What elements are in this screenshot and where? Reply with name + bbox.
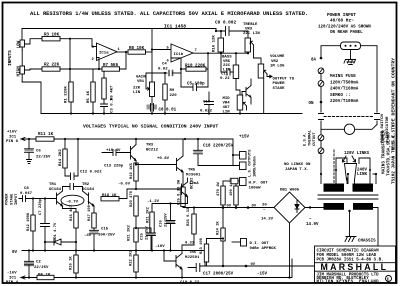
svg-text:R9: R9 [170,89,175,93]
svg-text:-0.7V: -0.7V [66,200,79,204]
svg-text:POWER INPUT: POWER INPUT [327,13,356,18]
svg-text:100mW: 100mW [249,186,262,190]
op-amp IC1a [97,43,118,61]
svg-text:R1 220K: R1 220K [65,86,69,103]
wire HP common down [247,186,249,267]
svg-text:240V/T160mA: 240V/T160mA [330,87,359,92]
svg-text:C8: C8 [24,187,29,191]
svg-text:22C LIN: 22C LIN [243,32,260,36]
svg-text:IC1: IC1 [9,276,17,280]
svg-text:-10V: -10V [155,245,165,249]
svg-text:ON: ON [309,102,315,106]
svg-text:PIN 8: PIN 8 [6,140,19,144]
svg-text:4K7: 4K7 [223,106,231,110]
svg-text:CUTOUT: CUTOUT [313,132,317,146]
svg-text:TR5: TR5 [188,169,196,173]
svg-text:22/25V: 22/25V [36,155,51,160]
wire top bus [22,28,216,30]
jack LS2 [240,162,247,170]
svg-text:C5 100p: C5 100p [187,82,205,86]
svg-text:C13 220p: C13 220p [104,165,124,169]
wire 0V lower rail [200,265,323,267]
svg-text:22K: 22K [133,87,141,91]
wire secondary right loop [323,208,379,267]
wire gain pot feed [151,81,153,83]
node fb [180,68,182,70]
svg-text:VR1: VR1 [137,80,145,84]
wire bridge right to secondary [305,207,310,209]
connector mains inlet [341,42,361,50]
svg-text:+15V: +15V [239,136,250,140]
capacitor C8 0.01 gain bottom [151,97,153,105]
svg-text:-15V: -15V [257,273,268,277]
wire to IC1b plus [152,49,171,51]
wire minus input [97,58,100,70]
svg-text:TR3: TR3 [146,144,154,148]
wire TR4 base [127,188,182,190]
wire TR5 base [136,164,177,166]
svg-text:240V: 240V [357,169,368,173]
wire inlet live [321,46,341,57]
jack J1 low [20,40,25,47]
svg-text:0V: 0V [12,251,18,255]
svg-text:PIN 4: PIN 4 [6,281,19,285]
wire output line [183,207,274,209]
svg-text:-1.2V: -1.2V [147,200,160,204]
svg-text:100/25V: 100/25V [98,233,115,238]
wire fuse to switch [320,86,322,101]
transformer core [318,195,378,199]
svg-text:14.2V: 14.2V [261,218,274,222]
link bracket [345,164,357,181]
svg-text:0V: 0V [251,263,256,267]
svg-text:NO LINKS ON: NO LINKS ON [284,163,311,167]
svg-text:120V LINKS: 120V LINKS [344,152,370,156]
svg-text:MARSHALL: MARSHALL [321,262,389,272]
svg-text:LIN: LIN [223,111,231,115]
wire IC1b minus [171,58,181,87]
svg-text:C17 2000/25V: C17 2000/25V [203,272,234,277]
jack J2 high [20,66,25,74]
svg-text:C19 0.22: C19 0.22 [180,281,200,285]
svg-text:IC1a: IC1a [99,52,109,56]
svg-text:CHASSIS: CHASSIS [358,240,376,244]
op-amp IC1b [171,44,193,62]
svg-text:C2: C2 [36,261,41,265]
wire top corner to R16 [215,29,217,32]
svg-text:20: 20 [262,204,267,208]
svg-text:MID: MID [223,97,231,101]
svg-text:IC1b: IC1b [174,52,184,57]
fuse F1 [318,68,324,74]
svg-text:14.9V: 14.9V [306,223,319,227]
svg-text:OC184: OC184 [82,188,95,192]
node primary taps [320,173,322,175]
svg-text:C8 0.01: C8 0.01 [159,109,177,113]
svg-text:0dBe APPROX: 0dBe APPROX [250,246,277,251]
wire bridge bottom [289,223,291,278]
lamp indicator [344,124,354,134]
wire plus input [70,39,97,47]
svg-text:TR6: TR6 [189,251,197,255]
capacitor coupling top [63,184,83,190]
node R3 out [69,38,71,40]
svg-text:+16V: +16V [7,131,17,135]
svg-text:D.I. OUT: D.I. OUT [250,242,270,246]
transformer T1 primary windings [324,184,345,192]
jack LS1 [240,152,247,160]
svg-text:VR2: VR2 [271,60,279,64]
svg-text:ALL RESISTORS 1/4W UNLESS STAT: ALL RESISTORS 1/4W UNLESS STATED. ALL CA… [30,11,308,17]
svg-text:R21 2K2: R21 2K2 [128,224,132,241]
svg-text:MILTON KEYNES, ENGLAND.: MILTON KEYNES, ENGLAND. [317,280,382,284]
svg-text:C12 0.022: C12 0.022 [80,170,102,174]
svg-text:C18 2200/25V: C18 2200/25V [203,143,234,148]
wire high to R2 [30,69,42,70]
svg-text:LIN: LIN [133,91,141,95]
node feed to IC1b [151,48,153,50]
thermal couple oval [61,195,84,206]
svg-text:R16 1K: R16 1K [70,256,74,270]
svg-text:BC182: BC182 [191,177,195,189]
svg-text:0.047: 0.047 [20,192,33,196]
svg-text:C3 0.1: C3 0.1 [111,98,115,113]
svg-text:LINK: LINK [357,173,368,177]
svg-text:C7 220p: C7 220p [39,198,43,215]
svg-text:0.02: 0.02 [158,67,168,71]
svg-text:R6 4K7: R6 4K7 [111,85,115,100]
wire C12 to rail [77,139,79,176]
svg-text:0V: 0V [252,204,257,208]
svg-text:1RMS/8ohm: 1RMS/8ohm [252,156,257,177]
svg-text:-16V: -16V [7,272,17,276]
svg-text:ZD1 4.7V: ZD1 4.7V [54,222,58,241]
svg-text:0.022: 0.022 [200,110,213,114]
svg-text:22/25V: 22/25V [163,213,168,227]
svg-text:POWER: POWER [6,193,10,205]
node op1 out [125,51,127,53]
svg-text:THERMAL: THERMAL [308,129,312,146]
wire speaker feed [233,139,240,166]
wire 0V rail [22,251,205,267]
svg-text:POWER: POWER [273,82,286,86]
svg-text:R16 12K: R16 12K [213,35,217,52]
wire op1 out [117,51,128,53]
svg-text:VR4: VR4 [223,102,231,106]
wire link dashed [333,150,335,183]
svg-text:JAPAN T.X.: JAPAN T.X. [285,168,309,172]
svg-text:OUTPUT TO: OUTPUT TO [273,78,295,82]
svg-text:L.S. OUTPUTS: L.S. OUTPUTS [249,149,253,177]
svg-text:OC184: OC184 [49,188,62,192]
svg-text:22/25V: 22/25V [34,265,49,270]
transistor TR buffer mid [242,79,251,104]
ground chassis [345,237,356,242]
svg-text:C16: C16 [160,219,164,227]
thermal cutout [320,129,322,135]
svg-text:E.S.A.: E.S.A. [304,132,308,146]
svg-text:0.22: 0.22 [220,77,230,81]
wire +16V rail [21,138,36,141]
svg-text:CIRCUIT SCHEMATIC DIAGRAM: CIRCUIT SCHEMATIC DIAGRAM [317,250,380,254]
switch S1 [319,102,324,129]
svg-text:INPUTS: INPUTS [8,50,13,66]
wire centre tap to chassis [348,210,350,212]
svg-text:ON REAR PANEL: ON REAR PANEL [330,31,363,35]
svg-text:R24 1K: R24 1K [217,221,221,235]
svg-text:120V/T500mA: 120V/T500mA [330,80,359,85]
svg-text:TS102 JAPAN TS015 E.S.A.: TS102 JAPAN TS015 E.S.A. [391,122,396,184]
wire IC1b out [193,52,248,54]
attenuator box [223,180,231,182]
svg-text:220: 220 [170,94,178,98]
svg-text:FOR MODEL 5005M 12W LEAD: FOR MODEL 5005M 12W LEAD [317,254,377,258]
svg-text:C15: C15 [141,232,145,240]
svg-text:TR2: TR2 [82,183,90,187]
wire low to R3 [30,39,42,44]
svg-text:H.P. OUT: H.P. OUT [249,182,269,186]
wire R1 branch [69,39,71,82]
svg-text:-0.6V: -0.6V [118,183,131,187]
svg-text:STAGE: STAGE [273,87,286,91]
svg-text:IC1: IC1 [9,135,17,139]
ground rail preamp [41,113,302,115]
svg-text:C15: C15 [101,228,109,232]
transformer secondary windings [324,203,345,210]
svg-text:40/60 Hz~: 40/60 Hz~ [330,19,354,24]
wire input drop [21,29,23,41]
wire TR6 base [164,251,176,262]
svg-text:INPUT: INPUT [15,193,19,205]
jack HP out [240,178,247,186]
wire primary taps [336,158,370,184]
wire secondary left [305,207,324,209]
ground earth symbol [344,60,356,65]
wire cutout to primary [320,154,322,184]
svg-text:R26 0.33: R26 0.33 [187,207,191,226]
svg-text:VR3: VR3 [245,28,253,32]
svg-text:TR1: TR1 [49,183,57,187]
wire mid vertical [151,29,153,83]
svg-text:TREBLE: TREBLE [243,23,258,27]
svg-text:MJ3001: MJ3001 [186,173,201,177]
wire switch link dashed [324,116,374,118]
jack DI out [241,239,247,247]
svg-text:MAINS FUSE: MAINS FUSE [330,74,356,79]
svg-text:VOLTAGES TYPICAL NO SIGNAL CON: VOLTAGES TYPICAL NO SIGNAL CONDITION 240… [83,124,218,130]
node R2 out [69,68,71,70]
svg-text:R23 100: R23 100 [200,237,204,254]
svg-text:SEMKO ::: SEMKO :: [330,93,351,98]
svg-text:STAGE: STAGE [10,193,14,205]
svg-text:R22 2K2: R22 2K2 [130,249,134,266]
copyright symbol [386,276,392,282]
svg-text:8A: 8A [311,59,317,63]
svg-text:C4: C4 [162,63,167,67]
svg-text:-4V: -4V [84,234,92,238]
svg-text:0V: 0V [227,204,232,208]
wire -16V rail [21,276,37,279]
wire inlet neutral [361,46,378,112]
svg-text:VOLUME: VOLUME [270,55,285,59]
svg-text:+0.8V: +0.8V [157,157,170,161]
svg-text:1M LOG: 1M LOG [270,64,285,68]
wire inlet earth [350,50,352,60]
svg-text:MJ2501: MJ2501 [185,256,200,260]
svg-text:BC212: BC212 [146,148,159,152]
svg-text:120/220/240V AS SHOWN: 120/220/240V AS SHOWN [318,25,371,30]
wire jack sleeve [22,50,41,114]
svg-text:C6: C6 [36,150,41,154]
diode inside bridge [295,201,299,213]
svg-text:220V/T100mA: 220V/T100mA [330,99,359,104]
svg-text:GAIN: GAIN [136,76,146,80]
title block [315,246,396,283]
svg-text:C9 0.002: C9 0.002 [215,21,236,26]
